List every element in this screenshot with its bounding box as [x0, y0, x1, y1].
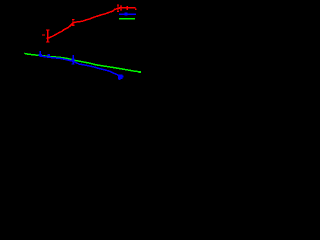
- red crossing thick at P3: [116, 8, 120, 9]
- legend red capped bar top cap: [120, 5, 122, 7]
- chart: three data series on black background: [0, 0, 150, 105]
- legend blue marker: [124, 13, 127, 16]
- blue end marker blob: [118, 74, 123, 79]
- blue error bar 1: [39, 51, 41, 57]
- blue series line: [40, 56, 120, 76]
- red error bar P1 top cap: [46, 29, 50, 31]
- blue marker 2: [48, 54, 50, 56]
- red series curve: [47, 8, 136, 39]
- blue end marker bottom nub: [119, 78, 121, 81]
- legend green line: [119, 18, 135, 20]
- green line end tip: [139, 71, 142, 73]
- red error bar P1 bottom cap: [46, 41, 50, 43]
- blue error bar 2: [72, 55, 74, 64]
- legend red capped bar bottom cap: [120, 9, 122, 11]
- red error bar P2: [72, 19, 74, 26]
- blue end marker right nub: [122, 76, 123, 78]
- blue marker 1: [38, 54, 41, 56]
- legend red capped bar: [120, 6, 122, 11]
- red error bar P3 bottom cap: [117, 11, 119, 13]
- red error bar P2 bottom cap: [72, 24, 75, 26]
- background: [0, 0, 150, 105]
- red error bar P3 top cap: [117, 4, 119, 6]
- green series line: [24, 53, 141, 72]
- red mystery tick: [42, 34, 45, 36]
- legend red right end step: [135, 9, 136, 11]
- red error bar P1: [47, 30, 49, 43]
- red error bar P2 top cap: [72, 18, 75, 20]
- red error bar P3: [117, 5, 119, 12]
- legend red center marker bar: [126, 6, 128, 10]
- legend blue line: [119, 13, 136, 15]
- blue error bar 2 bottom cap: [72, 63, 75, 65]
- blue marker 3: [72, 59, 75, 62]
